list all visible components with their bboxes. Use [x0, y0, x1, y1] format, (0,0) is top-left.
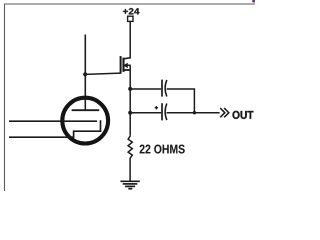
drain lead	[124, 58, 131, 59]
node: junction dot bottom capacitor branch	[128, 111, 132, 115]
node: junction dot top capacitor branch	[128, 87, 132, 91]
ground	[120, 181, 139, 188]
node: junction dot at corner meet	[193, 111, 196, 114]
source lead	[124, 69, 130, 71]
tube cathode right vertical	[100, 120, 102, 132]
tube V1 envelope circle	[62, 98, 108, 144]
wire: to bottom capacitor	[130, 112, 161, 114]
+24 supply label	[123, 8, 139, 14]
OUT label	[233, 111, 254, 119]
resistor R1 zigzag	[128, 136, 132, 159]
border frame	[5, 4, 256, 191]
wire: source bus down	[129, 65, 131, 136]
wire: top capacitor to corner, down to output line	[167, 89, 195, 113]
body lead with arrow	[126, 64, 130, 66]
capacitor C1 (top)	[162, 80, 167, 97]
tube cathode left leg	[73, 131, 75, 137]
node: junction dot at tube plate / gate wire	[83, 72, 87, 76]
tube plate bar	[72, 109, 100, 111]
capacitor C2 (bottom, polarized)	[162, 103, 167, 120]
tube grid wire	[9, 120, 97, 122]
output chevron arrow	[220, 108, 229, 117]
+24 terminal square	[128, 16, 133, 21]
transistor Q1 (MOSFET)	[121, 56, 131, 74]
wire: resistor to ground	[129, 158, 131, 181]
channel bar	[122, 58, 124, 72]
wire: gate wire from tube plate node to MOSFET gate	[85, 73, 120, 74]
wire: cathode lead to left	[9, 136, 74, 138]
wire: +24 terminal to MOSFET drain	[129, 22, 131, 59]
wire: to top capacitor	[130, 88, 161, 90]
gate bar	[120, 56, 122, 74]
wire: tube plate stub / vertical input line	[84, 35, 86, 111]
resistor value label 22 OHMS	[140, 145, 185, 154]
capacitor C2 polarity +	[155, 106, 158, 109]
tube cathode bar	[73, 130, 101, 132]
wire: bottom capacitor to output	[167, 112, 220, 114]
